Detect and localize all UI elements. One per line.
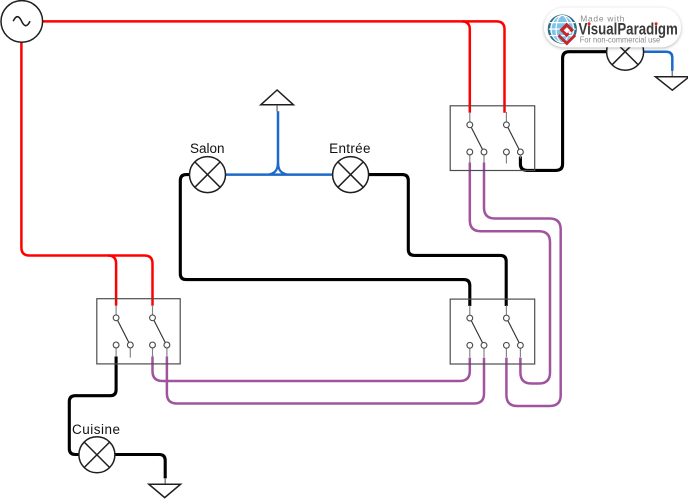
wire purple traveller S1a-R to S3b left [484, 163, 561, 407]
switch box S1 (top right double switch) [450, 106, 535, 171]
wire black from Entree lamp to switch S3b top [369, 175, 507, 306]
lamp Cuisine [79, 437, 115, 473]
wire black from Salon lamp to switch S3a top [69, 52, 606, 479]
AC source G [1, 1, 43, 43]
wire purple traveller S2b-R to S3a right [167, 357, 484, 404]
ground G1 bottom [149, 478, 181, 497]
switch S3b (bottom-right box, right toggle) [504, 305, 524, 357]
earth triangle (antenna) above blue neutral [261, 90, 294, 105]
lamp L4 top right (under logo) [607, 33, 644, 70]
wire black from S1 switch-b common to lamp L4 [520, 52, 606, 171]
svg-text:For non-commercial use: For non-commercial use [580, 35, 661, 44]
switch S1b (top-right box, right toggle) [504, 112, 524, 164]
switch S2a (bottom-left box, left toggle) [113, 305, 133, 358]
switch S3a (bottom-right box, left toggle) [467, 305, 487, 357]
switch box S3 (bottom right double switch) [450, 299, 535, 364]
ground G2 top right [655, 71, 688, 91]
wire red branch to S1 switch-a top [462, 21, 470, 112]
wire red branch to S2 switch-a top [108, 256, 116, 306]
wire blue from lamp L4 to ground G2 [644, 52, 673, 71]
svg-text:Cuisine: Cuisine [72, 422, 121, 437]
lamp Entree [333, 157, 369, 193]
wire purple traveller S2b-L to S3a left [153, 357, 470, 382]
wire black from S2 switch-a to Cuisine lamp [69, 357, 116, 455]
wire blue fillet left [270, 164, 278, 175]
wire red from AC source bottom to double switch S2 [21, 42, 152, 305]
svg-text:Salon: Salon [190, 141, 225, 156]
wire blue fillet right [278, 164, 286, 175]
logo globe icon [549, 16, 576, 43]
stub gray under earth triangle [276, 106, 278, 112]
logo red i dots [588, 22, 591, 25]
wire purple traveller S1a-L to S3b common [153, 163, 561, 407]
switch S1a (top-right box, left toggle) [467, 112, 487, 164]
wire red L from AC source top to double switch S1 (live feed) [21, 21, 504, 305]
svg-text:Entrée: Entrée [329, 141, 371, 156]
logo Visual Paradigm badge [544, 8, 681, 48]
logo red diamond [559, 23, 576, 44]
lamp Salon [190, 157, 226, 193]
switch box S2 (bottom left double switch) [97, 299, 180, 364]
switch S2b (bottom-left box, right toggle) [150, 305, 170, 357]
wire black from Cuisine lamp to ground [115, 455, 165, 479]
wire blue drop from earth triangle [277, 111, 280, 165]
wire blue neutral between Salon and Entree lamps [226, 52, 673, 175]
